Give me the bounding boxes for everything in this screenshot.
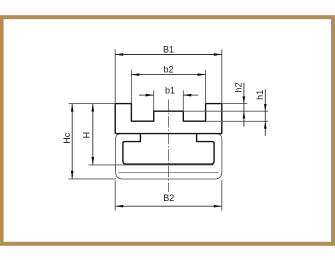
svg-text:B2: B2 [163,193,174,203]
profile interface line [115,133,222,135]
dimension B1 [115,45,222,104]
svg-text:b1: b1 [165,85,175,95]
dimension b2 [131,65,205,104]
dimension h2 [234,82,246,126]
top extension line left [69,103,116,105]
svg-text:b2: b2 [163,65,173,75]
profile top outline (thick) [115,104,222,134]
profile clip cavity (thick) [123,134,214,165]
svg-text:h2: h2 [234,82,244,92]
profile inner bottom line (thin) [119,171,219,173]
svg-text:B1: B1 [163,45,174,55]
centerline [168,100,170,193]
dimension H [81,104,213,165]
dimension B2 [115,180,222,210]
profile body outer contour (thin) [116,134,222,179]
right extension lines [222,103,248,105]
svg-text:H: H [81,132,91,139]
svg-text:Hc: Hc [62,132,72,143]
dimension h1 [255,89,267,135]
dimension Hc [62,104,116,179]
dimension b1 [139,85,198,111]
svg-text:h1: h1 [255,90,265,100]
